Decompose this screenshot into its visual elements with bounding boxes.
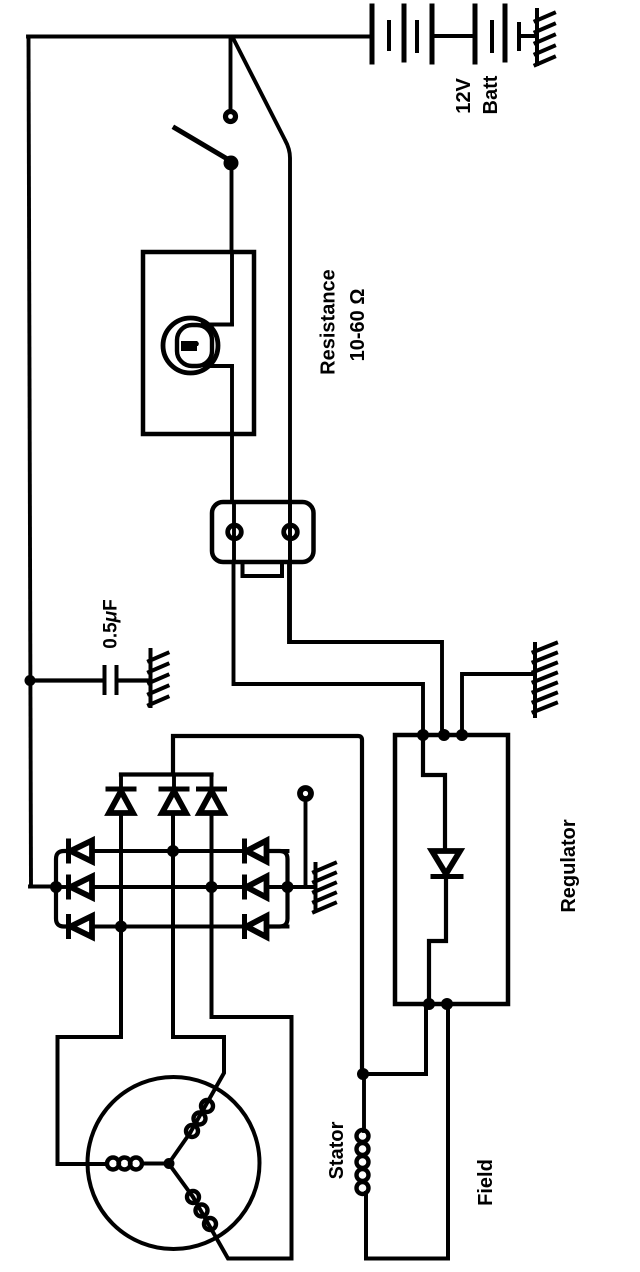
diode right D10 xyxy=(245,916,288,937)
label 0.5uF xyxy=(101,599,122,649)
diode right D8 xyxy=(245,841,288,862)
svg-text:10-60 Ω: 10-60 Ω xyxy=(347,289,369,362)
terminal T1 xyxy=(300,788,311,799)
svg-text:12V: 12V xyxy=(453,78,475,114)
wire right drop to regulator xyxy=(289,562,442,735)
wire stator phase 1 vertical xyxy=(58,813,122,1164)
wire left border to diode bus xyxy=(30,885,56,889)
switch S1 xyxy=(175,37,239,253)
lamp L1 bulb xyxy=(163,318,218,373)
wire left border down xyxy=(29,37,32,887)
label 12V Batt xyxy=(453,75,502,114)
capacitor C1 junction xyxy=(25,675,36,686)
svg-text:Field: Field xyxy=(475,1159,497,1206)
label Field xyxy=(475,1159,497,1206)
indicator lamp box xyxy=(143,252,254,434)
wire regulator interior xyxy=(423,735,445,851)
wire phase row C xyxy=(92,925,243,929)
label Regulator xyxy=(558,819,580,913)
diode left D6 xyxy=(69,916,93,937)
ground regulator xyxy=(534,643,557,716)
battery 12V xyxy=(372,6,537,62)
wire connector right through xyxy=(288,502,292,562)
wire regulator left bottom to field junction xyxy=(363,1004,426,1074)
wire left drop to regulator xyxy=(234,562,424,735)
winding stator left xyxy=(107,1158,142,1170)
wire field coil bottom return xyxy=(366,1004,448,1259)
node regulator bottom junctions xyxy=(423,998,435,1010)
stator circle xyxy=(88,1077,260,1249)
regulator box xyxy=(395,735,508,1004)
node phase2 row A junction xyxy=(167,845,179,857)
connector terminal right xyxy=(284,525,298,539)
node left bus junction xyxy=(50,881,62,893)
wire stator phase 3 vertical xyxy=(193,813,292,1259)
field coil F1 xyxy=(362,1074,366,1131)
winding stator lower right xyxy=(187,1191,216,1230)
svg-text:Stator: Stator xyxy=(326,1121,348,1179)
capacitor C1 xyxy=(29,678,102,682)
diode right D9 xyxy=(245,877,267,898)
node phase3 row B junction xyxy=(206,881,218,893)
node right bus junction xyxy=(282,881,294,893)
svg-text:Batt: Batt xyxy=(480,75,502,114)
diode trio D2 xyxy=(161,789,187,813)
wire right diode bus xyxy=(267,851,288,927)
svg-text:Resistance: Resistance xyxy=(318,269,340,375)
node field junction xyxy=(357,1068,369,1080)
wire phase row A xyxy=(92,849,244,853)
wire row B to ground xyxy=(288,885,316,889)
wire phase row B xyxy=(92,885,244,889)
ground battery xyxy=(536,10,555,65)
wire stator phase 2 vertical xyxy=(173,813,224,1133)
diode trio D3 xyxy=(199,789,225,813)
wire left diode bus xyxy=(56,851,68,927)
svg-text:0.5μF: 0.5μF xyxy=(101,599,122,649)
diode regulator xyxy=(432,851,460,874)
node phase1 row C junction xyxy=(115,921,127,933)
label Resistance 10-60 ohm xyxy=(318,269,370,375)
ground rectifier xyxy=(314,863,335,912)
winding stator upper right xyxy=(186,1100,213,1137)
lamp L1 leads xyxy=(230,252,234,324)
connector J1 xyxy=(212,502,314,562)
wire resistance bypass diagonal xyxy=(233,38,290,642)
wire ground stub regulator xyxy=(462,674,535,735)
diode left D5 xyxy=(69,877,93,898)
wire regulator interior lower xyxy=(429,876,446,1004)
connector terminal left xyxy=(228,525,242,539)
diode left D4 xyxy=(69,841,93,862)
svg-text:Regulator: Regulator xyxy=(558,819,580,913)
wire connector left through xyxy=(232,502,236,562)
label Stator xyxy=(326,1121,348,1179)
diode trio D1 xyxy=(108,789,134,813)
wire top bus from left corner to battery xyxy=(28,35,372,39)
ground capacitor xyxy=(149,650,168,706)
node stator Y center xyxy=(164,1158,175,1169)
wire trio sub-bus xyxy=(121,772,212,776)
node regulator top junctions xyxy=(417,729,429,741)
wire diode trio bus xyxy=(173,736,362,1074)
connector tab xyxy=(243,562,283,576)
